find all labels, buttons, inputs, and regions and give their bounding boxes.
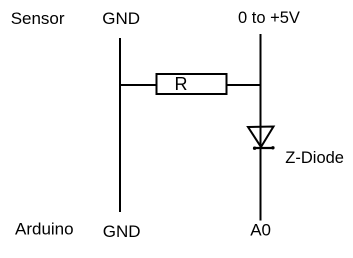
svg-text:Z-Diode: Z-Diode xyxy=(285,149,344,167)
svg-text:A0: A0 xyxy=(250,220,271,239)
svg-text:Sensor: Sensor xyxy=(11,9,65,28)
svg-text:R: R xyxy=(175,74,188,94)
svg-text:Arduino: Arduino xyxy=(15,219,74,238)
svg-text:GND: GND xyxy=(103,222,141,241)
svg-text:0 to +5V: 0 to +5V xyxy=(238,9,300,27)
svg-text:GND: GND xyxy=(102,9,140,28)
